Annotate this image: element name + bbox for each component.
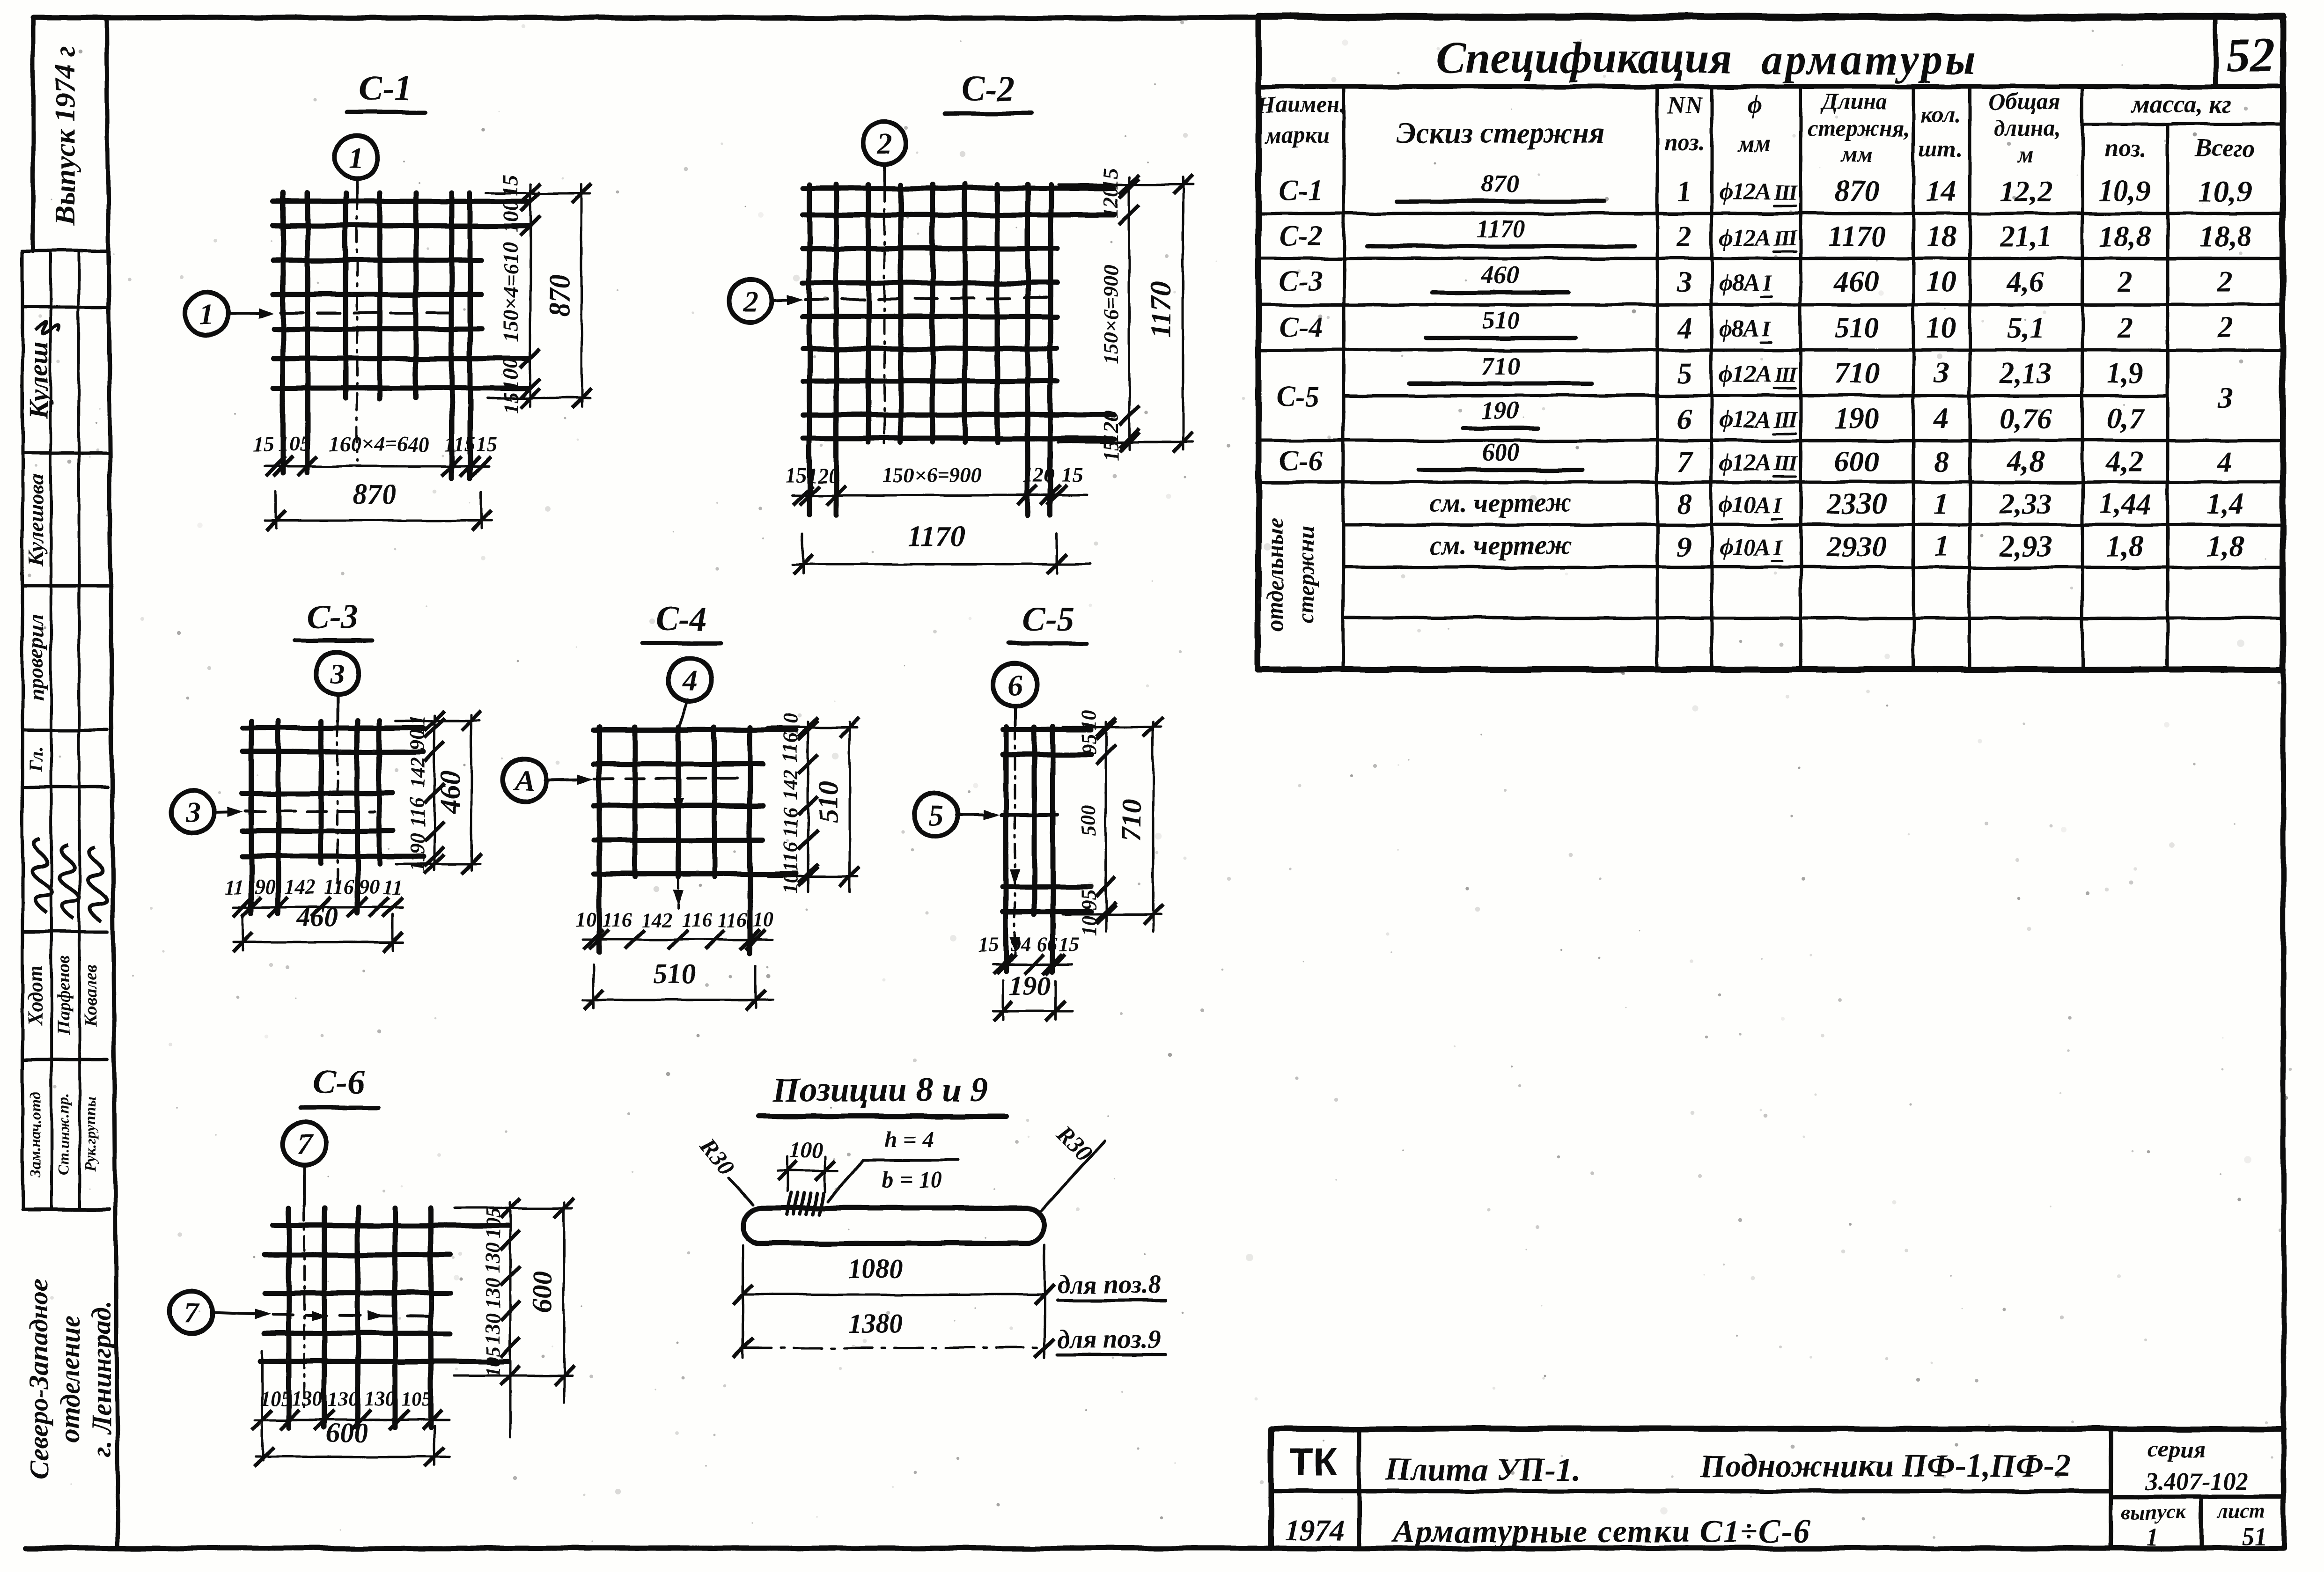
svg-text:105: 105 [279,432,311,456]
svg-text:III: III [1773,451,1798,476]
svg-text:Северо-Западное: Северо-Западное [23,1279,54,1479]
svg-text:отделение: отделение [55,1315,86,1442]
mesh C-6: bottom overall dim 600 [254,1417,449,1467]
svg-text:870: 870 [353,478,397,510]
svg-text:11: 11 [224,875,244,898]
svg-text:6: 6 [1008,668,1022,701]
svg-text:м: м [2017,141,2034,167]
svg-text:3: 3 [185,796,200,829]
stamp strip: label проверил [24,615,48,701]
mesh C-5: bottom overall dim 190 [993,971,1072,1021]
svg-text:90: 90 [359,875,379,898]
svg-text:90: 90 [406,833,429,854]
svg-text:Кулешова: Кулешова [24,474,48,566]
svg-text:3: 3 [1934,356,1949,390]
svg-text:кол.: кол. [1920,102,1960,128]
mesh C-4: bottom dim chain (10/116/142/116/116/10) [576,908,773,949]
svg-text:510: 510 [1834,311,1879,344]
svg-text:10,9: 10,9 [2099,174,2151,207]
svg-text:130: 130 [481,1242,504,1273]
mesh C-2: bottom overall dim 1170 [792,521,1091,574]
stamp strip: label Гл. [25,747,46,772]
svg-text:11: 11 [382,875,402,898]
svg-text:3: 3 [1677,265,1692,298]
svg-text:ϕ8А: ϕ8А [1719,316,1759,342]
svg-text:4,2: 4,2 [2106,445,2144,478]
svg-text:116: 116 [682,908,712,931]
svg-text:1974: 1974 [1285,1514,1345,1547]
svg-text:8: 8 [1934,445,1949,478]
svg-text:С-5: С-5 [1022,600,1074,639]
mesh C-6: leader row (dashes with arrows) [272,1310,438,1321]
stamp strip: cell borders [22,18,118,1548]
svg-text:III: III [1773,226,1798,250]
mesh C-5: bottom dim chain (15/94/66/15) [978,933,1080,974]
svg-text:105: 105 [481,1346,504,1377]
svg-text:7: 7 [297,1127,313,1161]
positions 8 and 9: leader h=4 b=10 [828,1126,958,1201]
svg-text:460: 460 [1834,265,1879,298]
svg-text:см. чертеж: см. чертеж [1430,530,1572,560]
svg-text:Позиции 8 и 9: Позиции 8 и 9 [772,1071,987,1109]
svg-text:120: 120 [807,463,839,487]
svg-text:С-2: С-2 [1280,220,1323,252]
svg-text:1,9: 1,9 [2106,356,2144,390]
svg-text:460: 460 [434,771,465,814]
svg-text:870: 870 [544,274,576,317]
svg-text:8: 8 [1677,487,1692,520]
svg-text:10: 10 [576,908,596,931]
svg-text:2: 2 [2217,311,2233,344]
page frame: right border [2283,18,2284,1548]
svg-text:1170: 1170 [1828,220,1886,253]
title block: серия 3.407-102 [2145,1436,2248,1495]
svg-text:95: 95 [1077,734,1100,755]
svg-text:94: 94 [1010,933,1031,956]
mesh C-3: horizontal wires [243,728,424,856]
mesh C-1: callout circle 1 (top) [335,135,378,194]
mesh C-1: horizontal wires [273,201,528,388]
svg-text:5: 5 [1677,356,1692,390]
svg-text:150×6=900: 150×6=900 [882,463,981,487]
svg-text:2: 2 [2117,265,2133,298]
svg-text:15: 15 [252,432,274,456]
svg-text:4,8: 4,8 [2007,445,2045,478]
positions 8 and 9: dim 100 over hook [777,1138,838,1192]
svg-text:120: 120 [1023,463,1055,487]
svg-text:выпуск: выпуск [2122,1500,2186,1523]
svg-text:для поз.9: для поз.9 [1057,1324,1161,1353]
mesh C-5: right dim chain (10/95/500/95/10) [1077,710,1116,936]
title block: выпуск 1 [2122,1500,2186,1551]
svg-text:142: 142 [284,875,315,898]
mesh C-4: bottom overall dim 510 [583,958,772,1009]
mesh C-4: callout circle 4 (top) [669,658,712,725]
svg-text:стержни: стержни [1293,526,1319,624]
mesh C-4: top leader (dash-dot) [673,727,684,908]
svg-text:1380: 1380 [848,1308,903,1339]
mesh C-4: right dim chain (10/116/142/116/116/10) [779,713,818,894]
svg-text:15: 15 [476,432,498,456]
svg-text:18: 18 [1927,220,1956,253]
svg-text:поз.: поз. [1664,130,1705,156]
svg-text:15: 15 [1059,933,1080,956]
svg-text:5: 5 [928,798,943,831]
svg-text:1: 1 [349,140,364,174]
positions 8 and 9: R30 left [695,1133,753,1204]
svg-text:2: 2 [2117,311,2133,344]
svg-text:90: 90 [255,875,275,898]
svg-text:мм: мм [1840,141,1873,167]
mesh C-3: top leader (dash-dot) [337,722,339,890]
svg-text:3.407-102: 3.407-102 [2145,1467,2248,1495]
mesh C-4: title [642,600,721,643]
svg-text:130: 130 [328,1387,359,1410]
svg-text:130: 130 [365,1387,396,1410]
svg-text:90: 90 [406,729,429,750]
svg-text:21,1: 21,1 [1999,220,2052,253]
mesh C-3: bottom dim chain (11/90/142/116/90/11) [224,875,403,917]
mesh C-5: leader row [1002,813,1057,816]
mesh C-2: callout circle 2 (top) [863,122,906,185]
positions 8 and 9: title [758,1071,1006,1116]
svg-text:130: 130 [481,1278,504,1309]
svg-text:15: 15 [978,933,999,956]
svg-text:4: 4 [682,663,698,697]
svg-text:116: 116 [324,875,354,898]
page frame: top border [33,15,2284,21]
svg-text:95: 95 [1077,890,1100,910]
svg-text:Ходот: Ходот [24,965,47,1026]
svg-text:А: А [513,764,535,797]
svg-text:1,4: 1,4 [2206,487,2244,520]
svg-text:10: 10 [1927,265,1956,298]
svg-text:7: 7 [1677,445,1693,478]
svg-text:С-3: С-3 [307,598,359,636]
svg-text:130: 130 [481,1313,504,1344]
page frame: bottom border [26,1546,2284,1551]
svg-text:2930: 2930 [1826,530,1887,563]
mesh C-3: bottom overall dim 460 [233,901,403,952]
positions 8 and 9: dim 1380 for pos 9 [733,1308,1166,1358]
svg-text:160×4=640: 160×4=640 [329,432,429,456]
svg-text:14: 14 [1927,174,1956,207]
svg-text:0,7: 0,7 [2106,402,2145,435]
svg-text:для поз.8: для поз.8 [1057,1270,1161,1299]
svg-text:Наимен.: Наимен. [1257,91,1345,118]
positions 8 and 9: bar (rounded) [743,1208,1044,1243]
svg-text:ϕ12А: ϕ12А [1719,449,1770,476]
spec table: rotated label отдельные стержни [1262,518,1319,632]
svg-text:4: 4 [2217,445,2233,478]
svg-text:15: 15 [1061,463,1083,487]
mesh C-2: callout circle 2 (left) with arrow [729,279,803,322]
svg-text:1: 1 [1934,530,1949,563]
mesh C-1: vertical wires [283,193,470,478]
svg-text:600: 600 [1482,438,1520,466]
svg-text:шт.: шт. [1919,135,1963,162]
mesh C-3: right dim chain (11/90/142/116/90/11) [406,711,444,874]
spec table: data rows [1276,169,2252,563]
svg-text:130: 130 [292,1387,323,1410]
mesh C-6: callout circle 7 (left) with arrow [170,1291,271,1334]
mesh C-4: horizontal wires [594,730,796,874]
svg-text:52: 52 [2226,28,2274,82]
svg-text:1,44: 1,44 [2099,487,2151,520]
svg-text:10: 10 [753,908,773,931]
mesh C-3: right overall dim 460 [396,711,481,874]
svg-text:12,2: 12,2 [2000,174,2052,207]
svg-text:7: 7 [184,1296,200,1329]
svg-text:10: 10 [1927,311,1956,344]
svg-text:6: 6 [1677,402,1692,435]
svg-text:10,9: 10,9 [2199,174,2251,207]
svg-text:ϕ12А: ϕ12А [1719,224,1770,251]
svg-text:Выпуск 1974 г: Выпуск 1974 г [50,46,81,226]
svg-text:1: 1 [199,297,214,331]
svg-text:3: 3 [330,657,345,690]
mesh C-5: top leader (dash-dot) [1010,726,1020,955]
svg-text:1080: 1080 [848,1254,903,1284]
mesh C-3: callout circle 3 (top) [316,652,359,722]
title block: лист 51 [2217,1500,2267,1551]
svg-text:710: 710 [1116,800,1147,842]
stamp strip: three signatures [15,838,123,921]
svg-text:2330: 2330 [1826,487,1887,520]
svg-text:С-4: С-4 [655,600,707,639]
mesh C-2: leader row (dashes) [805,298,1049,300]
mesh C-2: right dim chain (15/120/150x6=900/120/15) [1099,168,1139,461]
svg-text:2,13: 2,13 [1999,356,2052,390]
svg-text:150×4=610: 150×4=610 [499,242,522,342]
svg-text:марки: марки [1265,122,1330,148]
svg-text:1: 1 [1677,174,1692,207]
stamp strip: names Ходот / Парфенов / Ковалев [24,956,101,1036]
svg-text:460: 460 [296,901,338,932]
svg-text:190: 190 [1834,402,1879,435]
svg-text:3: 3 [2217,381,2233,414]
svg-text:Эскиз стержня: Эскиз стержня [1397,116,1605,149]
title block: Арматурные сетки С1÷С-6 [1391,1514,1811,1550]
svg-text:мм: мм [1737,131,1771,157]
svg-text:b = 10: b = 10 [882,1166,942,1192]
svg-text:Плита УП-1.: Плита УП-1. [1385,1452,1580,1488]
svg-text:С-4: С-4 [1280,311,1323,343]
svg-text:1,8: 1,8 [2206,530,2244,563]
svg-text:арматуры: арматуры [1761,36,1978,83]
svg-text:1: 1 [2147,1523,2159,1551]
mesh C-3: title [295,598,372,640]
svg-text:длина,: длина, [1993,115,2061,141]
svg-text:100: 100 [789,1138,823,1162]
mesh C-5: callout circle 5 (left) with arrow [914,793,1000,836]
mesh C-5: vertical wires [1006,727,1053,971]
svg-text:115: 115 [444,432,475,456]
mesh C-1: right dim chain (15/100/150x4=610/100/15) [499,175,540,413]
svg-text:105: 105 [481,1207,504,1238]
svg-text:10: 10 [1077,916,1100,936]
svg-text:510: 510 [654,958,696,989]
mesh C-2: top leader (dash-dot) [883,185,886,447]
svg-text:600: 600 [527,1271,558,1313]
svg-text:С-6: С-6 [314,1064,366,1102]
spec table: sheet number 52 [2226,28,2274,82]
svg-text:460: 460 [1481,261,1520,289]
svg-text:4: 4 [1677,311,1692,344]
svg-text:116: 116 [602,908,632,931]
svg-text:Длина: Длина [1820,88,1888,115]
svg-text:142: 142 [406,757,429,788]
svg-text:Ст.инж.пр.: Ст.инж.пр. [55,1093,72,1176]
title block: Плита УП-1. Подножники ПФ-1,ПФ-2 [1385,1448,2071,1488]
svg-text:С-3: С-3 [1280,265,1323,297]
stamp strip: text "Выпуск 1974 г" [50,46,81,226]
title block: borders [1271,1429,2284,1548]
svg-text:1170: 1170 [908,521,965,552]
svg-text:С-2: С-2 [961,69,1015,108]
svg-text:600: 600 [1834,445,1879,478]
svg-text:г. Ленинград.: г. Ленинград. [86,1301,117,1457]
mesh C-1: leader row (dashes) [281,311,449,314]
svg-text:2: 2 [876,127,892,160]
mesh C-6: bottom dim chain (105/130/130/130/105) [252,1351,449,1461]
svg-text:9: 9 [1677,530,1692,563]
svg-text:Кулеш: Кулеш [23,342,54,419]
positions 8 and 9: dim 1080 for pos 8 [733,1245,1166,1358]
spec table: header texts [1257,88,2256,167]
svg-text:51: 51 [2242,1523,2267,1551]
svg-text:150×6=900: 150×6=900 [1099,265,1123,364]
svg-text:105: 105 [401,1387,432,1410]
mesh C-6: horizontal wires [260,1226,508,1361]
mesh C-4: callout circle A (left) with arrow [503,758,594,802]
mesh C-4: vertical wires [599,727,750,953]
svg-text:NN: NN [1666,92,1703,119]
mesh C-5: horizontal wires [1003,730,1091,912]
svg-text:0,76: 0,76 [2000,402,2052,435]
positions 8 and 9: R30 right [1042,1120,1105,1210]
svg-text:ТК: ТК [1290,1440,1338,1484]
svg-text:1,8: 1,8 [2106,530,2144,563]
svg-text:серия: серия [2148,1436,2206,1462]
svg-text:С-5: С-5 [1276,381,1320,412]
svg-text:510: 510 [813,781,844,823]
svg-text:лист: лист [2217,1500,2265,1523]
svg-text:III: III [1773,408,1798,433]
svg-text:Гл.: Гл. [25,747,46,772]
svg-text:см. чертеж: см. чертеж [1430,487,1572,518]
svg-text:142: 142 [641,908,672,931]
mesh C-5: right overall dim 710 [1063,717,1163,932]
svg-text:710: 710 [1482,352,1520,380]
positions 8 and 9: anchor hook hatching [787,1193,824,1214]
svg-text:66: 66 [1037,933,1058,956]
svg-text:120: 120 [1099,186,1123,219]
mesh C-1: bottom overall dim 870 [265,478,492,530]
mesh C-6: vertical wires [289,1208,431,1427]
svg-text:116: 116 [717,908,747,931]
svg-text:С-1: С-1 [1280,175,1323,206]
mesh C-1: top leader (dash-dot) [356,194,358,461]
svg-text:710: 710 [1834,356,1879,390]
svg-text:18,8: 18,8 [2199,220,2251,253]
svg-text:15: 15 [499,392,522,413]
svg-text:870: 870 [1482,169,1520,198]
svg-text:870: 870 [1834,174,1879,207]
mesh C-3: callout circle 3 (left) with arrow [171,791,243,834]
svg-text:116: 116 [779,842,802,872]
mesh C-2: horizontal wires [803,188,1114,438]
svg-text:1: 1 [1934,487,1949,520]
svg-text:h = 4: h = 4 [884,1126,934,1152]
svg-text:III: III [1773,180,1798,205]
svg-text:ϕ12А: ϕ12А [1719,179,1770,206]
svg-text:Рук.группы: Рук.группы [82,1096,99,1173]
svg-text:600: 600 [326,1417,368,1448]
svg-text:Подножники ПФ-1,ПФ-2: Подножники ПФ-1,ПФ-2 [1699,1448,2071,1484]
mesh C-3: leader row (dashes) [246,810,375,813]
svg-text:18,8: 18,8 [2099,220,2151,253]
svg-text:отдельные: отдельные [1262,518,1288,632]
stamp strip: signature Кулеш [23,322,59,419]
svg-text:190: 190 [1009,971,1051,1001]
mesh C-1: callout circle 1 (left) with arrow [185,292,274,335]
mesh C-6: title [301,1064,378,1108]
spec table: title Спецификация арматуры [1436,33,1978,83]
svg-text:500: 500 [1077,805,1100,836]
spec table: outer border and title band [1258,16,2283,669]
mesh C-2: vertical wires [809,184,1051,515]
mesh C-1: bottom dim chain (15/105/160x4=640/115/15) [252,432,498,476]
spec table: row lines [1258,213,2283,618]
svg-text:ϕ10А: ϕ10А [1719,492,1770,518]
svg-text:стержня,: стержня, [1807,115,1910,141]
svg-text:Зам.нач.отд: Зам.нач.отд [27,1092,44,1177]
svg-text:ϕ: ϕ [1747,90,1762,119]
mesh C-6: top leader (dash-dot) [303,1207,306,1409]
stamp strip: organisation Северо-Западное отделение г.Ленинград [23,1279,117,1479]
svg-text:116: 116 [406,797,429,827]
stamp strip: labels Зам.нач.отд / Ст.инж.пр. / Рук.группы [27,1092,99,1177]
svg-text:2: 2 [743,284,758,317]
svg-text:Ковалев: Ковалев [81,964,101,1027]
mesh C-2: title [945,69,1032,113]
svg-text:ϕ12А: ϕ12А [1719,406,1770,433]
svg-text:190: 190 [1482,397,1520,425]
svg-text:Парфенов: Парфенов [54,956,74,1036]
svg-text:2,33: 2,33 [1999,487,2052,520]
svg-text:масса, кг: масса, кг [2131,90,2231,118]
svg-text:Общая: Общая [1989,88,2060,115]
svg-text:1170: 1170 [1476,214,1525,243]
mesh C-2: right overall dim 1170 [1058,175,1193,452]
mesh C-5: callout circle 6 (top) [993,663,1037,726]
svg-text:поз.: поз. [2104,134,2147,162]
svg-text:2: 2 [2217,265,2233,298]
svg-text:Спецификация: Спецификация [1436,33,1733,82]
svg-text:III: III [1773,362,1798,387]
svg-text:С-1: С-1 [359,69,412,108]
svg-text:1170: 1170 [1145,282,1177,338]
svg-text:100: 100 [499,200,522,233]
svg-text:5,1: 5,1 [2007,311,2045,344]
svg-text:Всего: Всего [2194,134,2256,162]
mesh C-2: bottom dim chain (15/120/150x6=900/120/15) [785,463,1086,505]
title block: ТК / 1974 [1285,1440,1345,1547]
svg-text:Арматурные сетки С1÷С-6: Арматурные сетки С1÷С-6 [1391,1514,1811,1550]
spec table: header grid [1344,87,2283,669]
svg-text:4: 4 [1934,402,1949,435]
